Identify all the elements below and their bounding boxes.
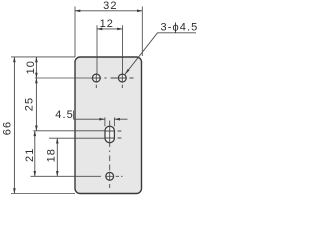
center line H2 vertical — [121, 73, 123, 88]
center line H1 vertical — [95, 73, 97, 88]
svg-text:3-ϕ4.5: 3-ϕ4.5 — [161, 22, 199, 34]
leader line 3-phi4.5 — [125, 33, 196, 75]
arrow 18 up — [56, 138, 59, 144]
svg-text:66: 66 — [2, 121, 14, 135]
svg-text:18: 18 — [45, 148, 57, 162]
dim line 4.5 left part — [73, 118, 105, 120]
hole H2 top-right — [118, 74, 126, 82]
arrow 4.5 right pointing left — [114, 118, 120, 121]
svg-text:12: 12 — [100, 18, 114, 30]
arrow 10 up — [35, 57, 38, 63]
extension line row1 left — [35, 77, 92, 79]
arrow 10 down — [35, 73, 38, 79]
center line slot upper horizontal — [105, 130, 122, 132]
svg-text:10: 10 — [25, 60, 37, 74]
svg-text:21: 21 — [24, 148, 36, 162]
arrow 21 down — [34, 171, 37, 177]
extension line dim4.5 left — [104, 117, 106, 126]
arrow 12 left — [97, 28, 103, 31]
arrow 66 up — [13, 57, 16, 63]
hole H3 bottom — [106, 172, 114, 180]
dim line 18 — [56, 138, 58, 176]
extension line dim32 right — [141, 7, 143, 57]
extension line dim4.5 right — [113, 117, 115, 126]
center line slot/H3 vertical — [109, 121, 111, 189]
dim line 10 — [35, 57, 37, 78]
svg-text:32: 32 — [103, 0, 117, 12]
extension line slot centerA left — [33, 130, 104, 132]
slot S1 middle — [105, 126, 114, 143]
svg-text:4.5: 4.5 — [55, 109, 74, 121]
arrow 25 up — [35, 78, 38, 84]
extension line bottom hole left — [31, 175, 102, 177]
extension line dim32 left — [74, 7, 76, 58]
extension line dim12 left — [96, 25, 98, 73]
center line H3 horizontal — [106, 175, 123, 177]
extension line slot centerB left — [49, 137, 105, 139]
dim line 66 — [13, 57, 15, 194]
dim line 21 — [34, 131, 36, 177]
arrow 25 down — [35, 126, 38, 132]
hole H1 top-left — [92, 74, 100, 82]
arrow 4.5 left pointing right — [99, 118, 105, 121]
extension line bottom edge left — [11, 193, 75, 195]
dim line 12 — [97, 28, 123, 30]
arrow leader at hole — [125, 69, 130, 74]
tick at 4.5 text — [72, 111, 74, 120]
dim line 25 — [35, 78, 37, 131]
arrow 12 right — [117, 28, 123, 31]
extension line top edge left — [11, 56, 75, 58]
center line slot lower horizontal — [105, 137, 122, 139]
arrow 18 down — [56, 171, 59, 177]
arrow 21 up — [34, 131, 37, 137]
arrow 32 right — [137, 10, 143, 13]
arrow 66 down — [13, 188, 16, 194]
svg-text:25: 25 — [24, 97, 36, 111]
arrow 32 left — [75, 10, 81, 13]
center line H1 horizontal — [92, 77, 134, 79]
plate outline — [75, 57, 142, 194]
dim line 32 — [75, 10, 142, 12]
dim line 4.5 right part — [114, 118, 127, 120]
extension line dim12 right — [122, 25, 124, 73]
